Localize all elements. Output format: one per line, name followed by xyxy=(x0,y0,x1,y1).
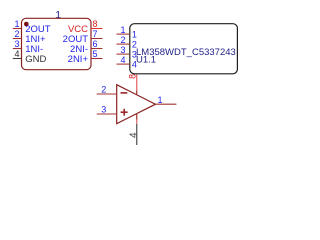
svg-text:4: 4 xyxy=(120,55,125,65)
pin 1 xyxy=(117,33,130,35)
svg-text:2: 2 xyxy=(101,85,106,95)
svg-text:8: 8 xyxy=(127,74,137,79)
pin 4 (V-) vertical stub inner segment xyxy=(136,114,138,120)
pin 3 (non-inverting input) xyxy=(97,113,117,115)
pin 4 stub outer segment xyxy=(136,120,138,124)
svg-text:U1.1: U1.1 xyxy=(136,54,156,65)
GND wire xyxy=(136,124,138,145)
plus sign xyxy=(121,111,128,113)
pin 4 xyxy=(13,58,22,60)
svg-text:3: 3 xyxy=(101,105,106,115)
pin 2 xyxy=(13,38,22,40)
pin 7 xyxy=(91,38,102,40)
pin 1 dot xyxy=(24,22,29,27)
svg-text:1: 1 xyxy=(14,19,19,29)
pin 4 xyxy=(117,63,130,65)
svg-text:3: 3 xyxy=(120,45,125,55)
pin 8 xyxy=(91,28,102,30)
pin 1 (output) xyxy=(155,103,176,105)
svg-text:4: 4 xyxy=(129,132,140,138)
pin 5 xyxy=(91,58,102,60)
body outline xyxy=(130,24,238,74)
svg-text:7: 7 xyxy=(93,29,98,39)
pin 3 xyxy=(13,48,22,50)
svg-text:4: 4 xyxy=(14,49,19,59)
pin 8 stub inner segment xyxy=(136,91,138,95)
minus sign xyxy=(121,92,128,94)
svg-text:6: 6 xyxy=(93,39,98,49)
IC body outline xyxy=(22,18,92,69)
component U1.1 (footprint/bounding box, right) xyxy=(117,24,238,74)
pin 1 xyxy=(13,28,22,30)
svg-text:1: 1 xyxy=(132,29,137,39)
svg-text:3: 3 xyxy=(14,39,19,49)
svg-text:8: 8 xyxy=(93,19,98,29)
pin 2 (inverting input) xyxy=(97,93,117,95)
svg-text:5: 5 xyxy=(93,49,98,59)
svg-text:2NI+: 2NI+ xyxy=(68,54,89,65)
triangle body xyxy=(117,85,156,124)
svg-text:1: 1 xyxy=(157,95,162,105)
pin 2 xyxy=(117,43,130,45)
svg-text:GND: GND xyxy=(25,54,46,65)
svg-text:1: 1 xyxy=(120,25,125,35)
pin 8 (V+) vertical stub outer segment xyxy=(136,75,138,91)
op-amp U1 (IC symbol, left) xyxy=(13,9,103,70)
pin 3 xyxy=(117,53,130,55)
svg-text:2: 2 xyxy=(120,35,125,45)
svg-text:2: 2 xyxy=(14,29,19,39)
pin 6 xyxy=(91,48,102,50)
op-amp U1.1 triangle symbol (bottom) xyxy=(97,74,177,145)
